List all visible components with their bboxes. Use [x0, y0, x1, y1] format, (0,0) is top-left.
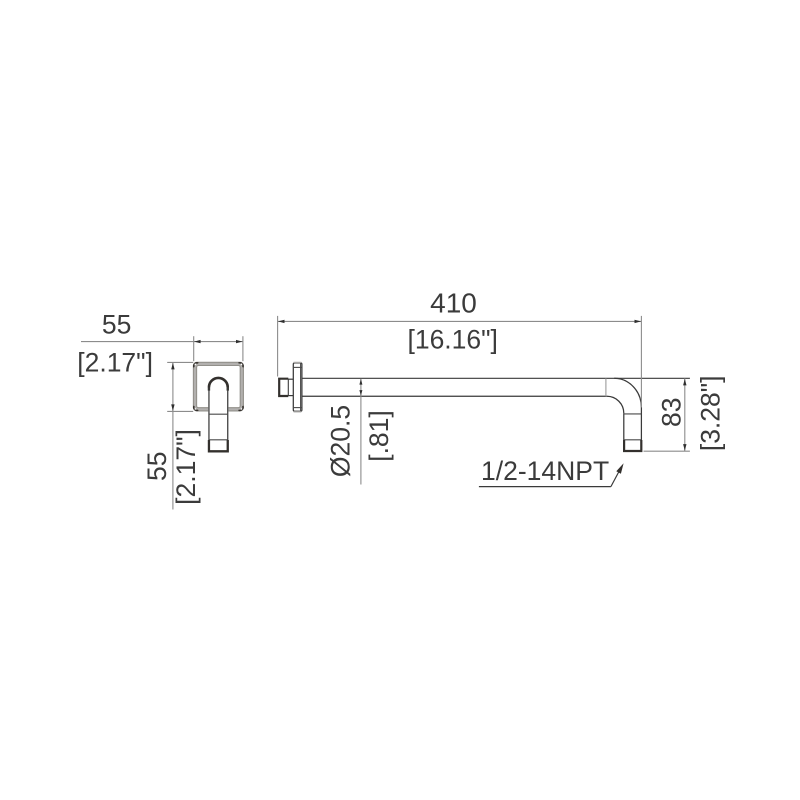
arm bend thick top arc: [209, 378, 228, 387]
drop tube left edge: [623, 413, 625, 440]
leader arrowhead: [616, 463, 623, 474]
svg-text:[3.28"]: [3.28"]: [696, 375, 726, 451]
svg-text:55: 55: [102, 310, 131, 340]
drop tube right edge: [640, 407, 642, 451]
corner arc bottom-right: [239, 406, 244, 411]
dim 55 top: right extension line: [242, 336, 244, 361]
dim 55 top: dimension line: [81, 341, 243, 343]
arm threaded tip thick outline: [209, 440, 228, 451]
dim dia 20.5: down arrowhead: [359, 390, 362, 396]
escutcheon inner vertical edge line: [300, 363, 302, 411]
dim 55 left: dimension line: [172, 362, 174, 509]
escutcheon bottom cap gray line: [294, 411, 302, 413]
dim 410: right extension line: [640, 316, 642, 408]
dim 83: top arrowhead: [683, 379, 686, 386]
flange inner rounded square: [197, 366, 241, 408]
dim 83: bottom extension line: [644, 450, 690, 452]
flange outer rounded square: [193, 362, 243, 411]
svg-text:1/2-14NPT: 1/2-14NPT: [481, 456, 609, 486]
dim 55 left: bottom arrowhead: [171, 404, 174, 411]
wall threaded end thick outline: [279, 379, 288, 396]
arm front view white fill: [208, 377, 228, 441]
elbow end line: [624, 413, 642, 415]
dim 83: bottom arrowhead: [683, 444, 686, 451]
leader underline: [479, 486, 611, 488]
leader diagonal: [611, 471, 620, 487]
dim 55 left: top extension line: [167, 361, 193, 363]
escutcheon side view outer rect: [293, 363, 302, 411]
dim 83: dimension line: [684, 378, 686, 451]
arm tube right side: [227, 387, 229, 440]
svg-text:410: 410: [430, 288, 477, 319]
tube top line (continues right as 83 extension): [302, 377, 690, 379]
elbow seam gray line: [605, 378, 607, 396]
svg-text:83: 83: [657, 397, 687, 426]
connector bottom line: [288, 395, 293, 397]
corner highlight dots: [195, 364, 197, 366]
escutcheon bottom edge line: [293, 407, 302, 409]
dim 55 top: left arrowhead: [194, 340, 201, 343]
dim 55 left: top arrowhead: [171, 363, 174, 370]
svg-text:[2.17"]: [2.17"]: [171, 429, 201, 505]
drop threaded tip thick outline: [624, 440, 641, 451]
corner arc top-right: [239, 363, 244, 368]
dim 55 left: bottom extension line: [167, 410, 193, 412]
dim 55 top: left extension line: [193, 336, 195, 361]
arm bend thick side stubs: [208, 387, 210, 391]
svg-text:Ø20.5: Ø20.5: [326, 405, 356, 477]
elbow inner arc: [607, 396, 624, 413]
svg-text:55: 55: [142, 451, 172, 480]
dim 410: left arrowhead: [278, 320, 285, 323]
wall threaded end right edge: [287, 379, 289, 396]
escutcheon top cap gray line: [294, 361, 302, 363]
dim 410: left extension line: [277, 316, 279, 377]
arm tip top line: [209, 439, 228, 441]
elbow outer arc: [614, 378, 641, 407]
tube bottom line: [302, 395, 607, 397]
dim dia 20.5: up arrowhead: [359, 379, 362, 385]
arm tube joint line: [209, 413, 228, 415]
svg-text:[16.16"]: [16.16"]: [407, 324, 497, 354]
corner arc top-left: [194, 363, 199, 368]
tip top line: [624, 439, 642, 441]
dim dia 20.5: dimension line: [360, 379, 362, 485]
svg-text:[.81]: [.81]: [364, 410, 394, 462]
escutcheon top edge line: [293, 366, 302, 368]
dim 410: right arrowhead: [635, 320, 642, 323]
arm tube left side: [208, 387, 210, 440]
connector top line: [288, 378, 293, 380]
corner arc bottom-left: [194, 406, 199, 411]
dim 55 top: right arrowhead: [236, 340, 243, 343]
dim 410: dimension line: [278, 320, 642, 322]
svg-text:[2.17"]: [2.17"]: [77, 348, 153, 378]
